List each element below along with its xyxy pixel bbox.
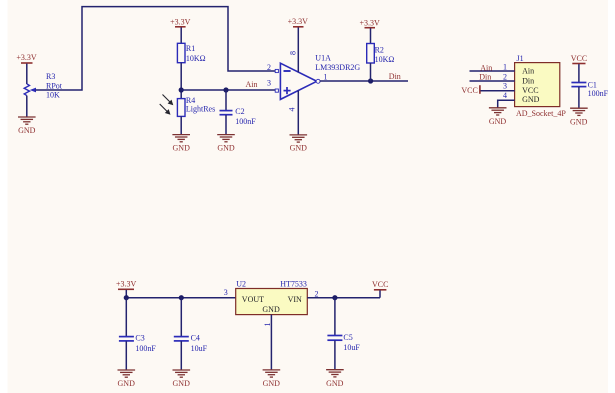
svg-text:10KΩ: 10KΩ (186, 54, 206, 63)
svg-text:VCC: VCC (461, 86, 477, 95)
svg-text:10K: 10K (46, 90, 60, 99)
svg-text:R3: R3 (46, 72, 55, 81)
svg-text:100nF: 100nF (135, 344, 156, 353)
wire Ain (J1 pin1) (470, 70, 515, 72)
svg-text:GND: GND (262, 305, 280, 314)
svg-text:J1: J1 (517, 54, 524, 63)
power +3.3V (bottom rail) (116, 280, 137, 290)
svg-text:AD_Socket_4P: AD_Socket_4P (516, 109, 566, 118)
svg-text:LightRes: LightRes (186, 105, 215, 114)
svg-text:GND: GND (570, 118, 588, 127)
svg-text:R2: R2 (375, 45, 384, 54)
node junction at R2 (368, 78, 373, 83)
potentiometer R3 RPot 10K (24, 72, 63, 99)
wire R2 to output node (370, 63, 372, 81)
svg-text:GND: GND (263, 379, 281, 388)
svg-text:GND: GND (290, 143, 308, 152)
node junction at R1/R4 (179, 87, 184, 92)
ground (C4) (173, 370, 191, 388)
svg-text:C1: C1 (588, 80, 597, 89)
wire pin 4 to ground (297, 90, 299, 134)
svg-text:U1A: U1A (315, 53, 331, 62)
svg-text:GND: GND (489, 117, 507, 126)
node junction +3.3V/C3 (124, 295, 129, 300)
svg-text:100nF: 100nF (235, 117, 256, 126)
wire R3 to ground (26, 96, 28, 117)
svg-text:C3: C3 (135, 334, 144, 343)
svg-text:GND: GND (522, 95, 540, 104)
ground (R4) (172, 135, 190, 153)
capacitor C3 100nF (119, 298, 156, 370)
svg-text:VCC: VCC (372, 280, 388, 289)
node junction at C2 (223, 87, 228, 92)
svg-text:+3.3V: +3.3V (170, 18, 191, 27)
svg-text:GND: GND (217, 143, 235, 152)
node junction C5 (332, 295, 337, 300)
svg-text:GND: GND (173, 379, 191, 388)
svg-text:Din: Din (479, 73, 491, 82)
ground (R3) (18, 117, 36, 135)
svg-text:VIN: VIN (288, 295, 302, 304)
svg-text:C5: C5 (343, 333, 352, 342)
wire Ain node to U1A pin3 (181, 89, 276, 91)
node junction C4 (179, 295, 184, 300)
svg-text:2: 2 (267, 63, 271, 72)
wire J1 pin4 to ground (498, 100, 515, 107)
wire R3 wiper to top rail to U1A pin2 (36, 7, 277, 90)
capacitor C2 100nF (220, 90, 257, 135)
pin 2 square (275, 69, 278, 72)
photoresistor R4 LightRes (160, 95, 216, 117)
wire +3.3V to R3 (26, 64, 28, 84)
svg-text:GND: GND (326, 379, 344, 388)
wire R4 to ground (180, 116, 182, 134)
power +3.3V (R3) (16, 53, 37, 63)
svg-text:GND: GND (18, 126, 36, 135)
wire VCC to J1 pin3 (481, 90, 515, 92)
svg-text:+3.3V: +3.3V (116, 280, 137, 289)
power VCC (J1 pin3) (461, 85, 480, 95)
svg-text:10uF: 10uF (191, 344, 208, 353)
svg-text:Ain: Ain (522, 66, 534, 75)
wire Din (J1 pin2) (470, 80, 515, 82)
capacitor C5 10uF (327, 298, 360, 370)
svg-text:Ain: Ain (246, 80, 258, 89)
wire +3.3V to R1 (180, 27, 182, 43)
ground (C5) (326, 370, 344, 388)
ground (U1) (290, 135, 308, 153)
wire VCC down to rail (379, 290, 381, 297)
svg-text:LM393DR2G: LM393DR2G (315, 63, 360, 72)
voltage regulator U2 HT7533 (236, 280, 308, 315)
svg-text:1: 1 (324, 72, 328, 81)
wire bottom rail left (126, 297, 235, 299)
svg-text:+3.3V: +3.3V (359, 19, 380, 28)
wire R1 to node (180, 63, 182, 99)
svg-text:RPot: RPot (46, 81, 63, 90)
wire pin 8 (297, 27, 299, 72)
svg-text:2: 2 (503, 72, 507, 81)
svg-text:4: 4 (288, 108, 297, 112)
svg-text:VOUT: VOUT (242, 295, 264, 304)
svg-text:3: 3 (267, 78, 271, 87)
svg-text:100nF: 100nF (588, 89, 609, 98)
ground (U2) (263, 370, 281, 388)
ground (C1) (570, 108, 588, 126)
svg-text:10uF: 10uF (343, 343, 360, 352)
svg-text:GND: GND (173, 143, 191, 152)
svg-text:VCC: VCC (522, 86, 538, 95)
svg-text:Ain: Ain (480, 63, 492, 72)
svg-text:3: 3 (224, 288, 228, 297)
power VCC (C1) (571, 54, 587, 63)
power +3.3V (R1) (170, 18, 191, 27)
svg-text:VCC: VCC (571, 54, 587, 63)
ground (C2) (217, 135, 235, 153)
wire +3.3V down to rail (125, 290, 127, 298)
pin 1 output circle (316, 79, 320, 83)
svg-text:C4: C4 (191, 334, 200, 343)
svg-text:Din: Din (522, 77, 534, 86)
capacitor C1 100nF (571, 64, 608, 108)
power +3.3V (R2) (359, 19, 380, 28)
ground (J1) (489, 108, 507, 126)
wire bottom rail right (307, 297, 380, 299)
svg-text:U2: U2 (236, 280, 246, 289)
connector J1 AD_Socket_4P (503, 54, 566, 118)
svg-text:GND: GND (118, 379, 136, 388)
capacitor C4 10uF (174, 298, 208, 370)
svg-text:R1: R1 (186, 44, 195, 53)
svg-text:Din: Din (389, 72, 401, 81)
pin 3 square (275, 89, 278, 92)
svg-text:1: 1 (503, 62, 507, 71)
svg-text:4: 4 (503, 91, 507, 100)
power +3.3V (U1 pin8) (288, 17, 309, 27)
svg-text:3: 3 (503, 81, 507, 90)
resistor R1 10KΩ (177, 43, 205, 63)
power VCC (bottom) (372, 280, 388, 290)
svg-text:HT7533: HT7533 (280, 280, 307, 289)
ground (C3) (118, 370, 136, 388)
resistor R2 10KΩ (367, 44, 395, 64)
svg-text:8: 8 (289, 51, 298, 55)
svg-text:C2: C2 (235, 107, 244, 116)
op-amp U1A LM393DR2G (280, 53, 360, 99)
svg-text:+3.3V: +3.3V (288, 17, 309, 26)
wire output to Din (320, 80, 408, 82)
svg-text:10KΩ: 10KΩ (375, 55, 395, 64)
svg-text:+3.3V: +3.3V (16, 53, 37, 62)
wire +3.3V to R2 (370, 28, 372, 43)
wire U2 GND pin to ground (270, 315, 272, 370)
